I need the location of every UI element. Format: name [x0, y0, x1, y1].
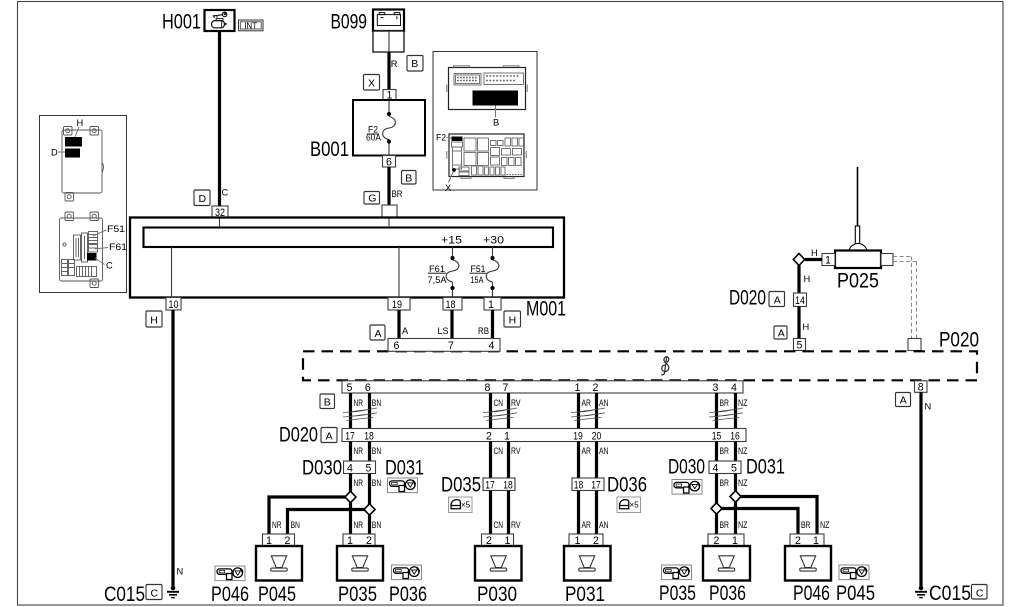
antenna P025 box: [835, 251, 881, 269]
branch wire NR to P045 pin1: [269, 497, 346, 534]
pin 6 box B001: [383, 156, 396, 168]
battery glyph: [377, 13, 400, 26]
wire NZ P020-4 to D020-16: [734, 393, 737, 429]
svg-text:M001: M001: [526, 297, 566, 321]
ground C015 right: [915, 586, 927, 598]
ground C015 left: [167, 586, 179, 598]
node: bus to pin 19: [398, 247, 400, 297]
junction diamond NR: [345, 491, 356, 502]
wire CN D020 to D035: [489, 442, 492, 479]
D031 icon (radio) left: [388, 478, 418, 493]
wire BR D030 to junction: [715, 474, 718, 505]
wire NR D030 to junction: [349, 474, 352, 493]
svg-text:AR: AR: [582, 446, 592, 456]
ref box D: [194, 190, 210, 206]
speaker P045 pin row: [263, 534, 295, 546]
speaker P030 box: [475, 546, 522, 581]
wire N P020 to ground C015 right: [919, 392, 922, 588]
junction diamond NZ: [730, 491, 741, 502]
ref box C left: [146, 585, 162, 600]
connector D035 box pins 17,18: [483, 478, 515, 491]
pin 1 box B001: [383, 90, 396, 101]
svg-text:P046: P046: [211, 582, 249, 606]
svg-text:19: 19: [573, 430, 583, 442]
ignition switch H001 icon box: [205, 10, 235, 31]
svg-text:8: 8: [485, 382, 491, 394]
svg-text:CN: CN: [494, 446, 504, 456]
D030 icon (radio) right: [672, 480, 702, 495]
fuse F61 7,5A: [428, 247, 459, 297]
svg-text:NR: NR: [272, 520, 282, 530]
svg-text:60A: 60A: [366, 133, 382, 143]
wire H pin14 to P020 pin5: [797, 307, 800, 339]
svg-text:B: B: [324, 397, 331, 409]
svg-text:C: C: [106, 261, 113, 271]
speaker P030 pin row: [482, 534, 514, 546]
svg-text:AR: AR: [582, 398, 592, 408]
svg-text:P045: P045: [258, 582, 296, 606]
svg-text:P036: P036: [709, 581, 746, 605]
svg-text:5: 5: [797, 340, 803, 352]
pin 18 box M001: [443, 298, 462, 311]
radio P020 dashed box: [303, 351, 977, 380]
P020 pin 8 box right: [915, 381, 928, 393]
svg-text:P020: P020: [939, 328, 979, 352]
G-wire entry box M001: [382, 205, 397, 218]
svg-text:CN: CN: [494, 520, 504, 530]
branch wire BN to P045 pin2: [288, 510, 365, 535]
speaker P031 cone symbol: [579, 556, 595, 571]
junction diamond BR: [711, 503, 722, 514]
svg-text:P045: P045: [836, 581, 875, 605]
svg-text:X: X: [445, 183, 451, 193]
svg-text:H: H: [803, 322, 810, 332]
svg-text:BR: BR: [720, 398, 730, 408]
svg-text:7: 7: [503, 382, 509, 394]
P020 top pin strip 6-7-4: [388, 339, 500, 352]
svg-text:F61: F61: [429, 264, 445, 274]
svg-text:BN: BN: [372, 478, 382, 488]
speaker P030 cone symbol: [490, 556, 506, 571]
wire BR P020-3 to D020-15: [715, 393, 718, 429]
svg-text:+30: +30: [483, 235, 504, 247]
D035 door x5 icon: [449, 497, 473, 513]
H001 ignition cylinder glyph: [212, 19, 228, 28]
svg-text:BR: BR: [392, 189, 403, 199]
node: G entry to bus: [388, 219, 390, 228]
svg-text:1: 1: [575, 382, 581, 394]
D036 door x5 icon: [617, 497, 641, 513]
antenna dome: [849, 244, 867, 253]
speaker P036 cone symbol: [718, 556, 734, 571]
wire NZ junction to P036: [734, 502, 737, 534]
svg-text:H: H: [811, 248, 818, 258]
svg-text:P030: P030: [477, 582, 517, 606]
svg-text:H001: H001: [162, 10, 201, 34]
svg-text:P031: P031: [565, 582, 605, 606]
speaker P031 box: [564, 546, 611, 581]
inset: X dot + leader: [452, 168, 456, 172]
connector D036 box pins 18,17: [572, 478, 604, 491]
speaker P035 cone symbol: [352, 556, 368, 571]
svg-text:NR: NR: [354, 478, 364, 488]
junction diamond BN: [364, 504, 375, 515]
svg-text:P046: P046: [793, 581, 830, 605]
junction diamond (antenna feed): [793, 254, 804, 266]
wire RV D035 to P030: [507, 491, 510, 535]
svg-text:H: H: [509, 315, 517, 327]
wire AN P020-2 to D020-20: [595, 393, 598, 429]
speaker P045 box: [256, 546, 302, 581]
svg-text:F51: F51: [471, 264, 486, 274]
ref box A (above P020 pin5): [774, 326, 787, 339]
svg-text:6: 6: [394, 340, 400, 352]
svg-text:AN: AN: [599, 446, 609, 456]
svg-text:10: 10: [169, 299, 179, 311]
battery lower box divider: [388, 31, 390, 52]
coax dashed link P025 to P020: [893, 257, 917, 339]
wire BR B001 to M001: [387, 167, 390, 205]
svg-text:NZ: NZ: [820, 520, 830, 530]
svg-text:1: 1: [825, 255, 831, 267]
wire AR P020-1 to D020-19: [577, 393, 580, 429]
svg-text:D020: D020: [279, 423, 318, 447]
ref box B lower: [402, 171, 417, 185]
speaker P036 pin row: [708, 534, 744, 546]
M001 internal bus bar: [144, 228, 554, 248]
antenna P025 mast: [857, 167, 859, 226]
svg-text:6: 6: [365, 382, 371, 394]
svg-text:3: 3: [713, 382, 719, 394]
svg-text:RV: RV: [511, 398, 521, 408]
inset: connector H (black): [65, 137, 82, 147]
svg-text:RV: RV: [511, 446, 521, 456]
P025 pin 1 box: [822, 254, 835, 266]
speaker P035 box: [337, 546, 383, 581]
svg-text:NZ: NZ: [738, 398, 748, 408]
tweeter P046 icon box left: [215, 566, 245, 581]
svg-text:AN: AN: [599, 398, 609, 408]
svg-text:4: 4: [489, 340, 495, 352]
svg-text:N: N: [925, 402, 932, 412]
svg-text:F61: F61: [109, 242, 127, 252]
svg-text:7,5A: 7,5A: [428, 275, 448, 285]
svg-text:BN: BN: [291, 520, 301, 530]
svg-text:INT: INT: [244, 20, 258, 30]
inset: connector D (black): [65, 149, 80, 158]
svg-text:BN: BN: [372, 446, 382, 456]
wire CN D035 to P030: [489, 491, 492, 535]
svg-text:A: A: [402, 326, 409, 336]
ref box C right: [972, 585, 988, 600]
connector D020 row box: [342, 429, 746, 442]
tweeter P036 icon box left: [392, 565, 422, 580]
svg-text:D030: D030: [302, 456, 342, 480]
battery B099 icon box: [373, 10, 404, 32]
svg-text:1: 1: [488, 299, 494, 311]
svg-text:C: C: [976, 587, 984, 599]
P020 bottom pin strip 5 6 8 7 1 2 3 4: [342, 381, 743, 393]
ref box A (D020 antenna): [769, 292, 785, 307]
svg-text:CN: CN: [494, 398, 504, 408]
wire AR D036 to P031: [577, 491, 580, 535]
svg-text:AR: AR: [582, 520, 592, 530]
ref box A (D020 row): [321, 428, 337, 443]
svg-text:19: 19: [392, 299, 402, 311]
svg-text:5: 5: [347, 382, 353, 394]
svg-text:1: 1: [504, 430, 510, 442]
node: pin32 to bus: [219, 219, 221, 228]
ref box B (front-left pair): [320, 394, 335, 409]
wire H junction to D020 pin14: [797, 266, 800, 294]
wire AN D036 to P031: [595, 491, 598, 535]
fuse F51 15A: [470, 247, 499, 297]
connector D030 box left pins 4,5: [344, 461, 376, 474]
speaker P046 cone symbol: [800, 556, 816, 571]
branch wire BR to P046 pin2: [722, 509, 799, 535]
D020 pin 14 box: [794, 293, 807, 307]
fuse box B001: [353, 100, 425, 156]
speaker P035 pin row: [343, 534, 375, 546]
svg-text:A: A: [326, 431, 333, 443]
svg-text:16: 16: [730, 430, 740, 442]
wire RV D020 to D035: [507, 442, 510, 479]
wire BR junction to P036: [715, 514, 718, 534]
svg-text:B: B: [411, 58, 418, 70]
speaker P046 box: [785, 546, 831, 581]
wire H P025 pin1 to junction: [805, 258, 822, 261]
wire RV P020-7 to D020-1: [507, 393, 510, 429]
svg-text:4: 4: [731, 382, 737, 394]
svg-text:5: 5: [366, 463, 372, 475]
speaker P045 cone symbol: [271, 556, 287, 571]
svg-text:18: 18: [503, 480, 513, 492]
antenna base stem: [855, 226, 859, 244]
wire LS M001 pin18 to P020: [450, 310, 453, 339]
svg-text:B001: B001: [310, 137, 349, 161]
svg-text:17: 17: [485, 480, 495, 492]
svg-text:17: 17: [345, 430, 355, 442]
twisted pair mark AR/AN: [571, 408, 605, 421]
svg-text:14: 14: [795, 295, 805, 307]
wire AR D020 to D036: [577, 442, 580, 479]
svg-text:BR: BR: [720, 446, 730, 456]
wire BN D030 to junction: [368, 474, 371, 505]
svg-text:F51: F51: [107, 224, 125, 234]
INT code box: [239, 20, 264, 31]
wire R B099 to B001 pin 1: [387, 52, 390, 90]
wire N M001 pin10 to ground C015: [171, 310, 174, 588]
svg-text:NZ: NZ: [738, 520, 748, 530]
wire NR D020 to D030: [349, 442, 352, 462]
wire BN junction to P035: [368, 515, 371, 534]
svg-text:15: 15: [712, 430, 722, 442]
inset: body computer unit top: [62, 127, 104, 202]
svg-text:4: 4: [347, 463, 353, 475]
wire H001 pin C to M001 pin 32: [218, 31, 221, 206]
svg-text:D035: D035: [441, 473, 481, 497]
svg-text:C: C: [151, 588, 159, 600]
pin 32 box M001: [212, 206, 228, 218]
pin 10 box M001: [166, 298, 181, 311]
svg-text:7: 7: [448, 340, 454, 352]
wire BN D020 to D030: [368, 442, 371, 462]
inset: X fuse F2 black rect: [452, 137, 463, 142]
svg-text:RV: RV: [511, 520, 521, 530]
svg-text:BN: BN: [372, 398, 382, 408]
svg-text:B: B: [493, 118, 499, 128]
svg-text:H: H: [77, 118, 84, 128]
fuse F2 symbol: [366, 100, 395, 156]
svg-text:NR: NR: [354, 520, 364, 530]
svg-text:LS: LS: [438, 326, 449, 336]
svg-text:2: 2: [593, 382, 599, 394]
svg-text:18: 18: [574, 480, 584, 492]
svg-text:D: D: [51, 148, 58, 158]
treble clef symbol: [661, 357, 669, 375]
coax entry box on P020: [908, 339, 921, 351]
svg-text:18: 18: [446, 299, 456, 311]
inset: unit B black connector: [473, 91, 519, 106]
tweeter P035 icon box right: [662, 565, 692, 580]
pin 19 box M001: [388, 298, 410, 311]
wire BN P020-6 to D020-18: [368, 393, 371, 429]
svg-text:BN: BN: [372, 520, 382, 530]
svg-text:BR: BR: [720, 520, 730, 530]
svg-text:X: X: [368, 77, 375, 89]
svg-text:A: A: [375, 328, 382, 340]
inset panel left (location drawing): [40, 116, 127, 293]
svg-text:F2: F2: [436, 133, 446, 143]
svg-text:+15: +15: [441, 235, 462, 247]
svg-text:A: A: [774, 295, 781, 307]
speaker P031 pin row: [569, 534, 603, 546]
svg-text:18: 18: [364, 430, 374, 442]
svg-text:G: G: [368, 193, 376, 205]
ref box H right: [504, 311, 521, 327]
svg-text:5: 5: [731, 463, 737, 475]
svg-text:2: 2: [486, 430, 492, 442]
svg-text:RB: RB: [478, 326, 489, 336]
H001 key glyph: [213, 12, 227, 18]
node: bus to pin 10: [171, 247, 173, 297]
twisted pair mark NR/BN: [343, 408, 377, 421]
svg-text:D031: D031: [746, 455, 785, 479]
P020 pin 5 box: [794, 339, 806, 351]
tweeter P045 icon box right: [839, 565, 869, 580]
ref box H left: [146, 311, 162, 327]
speaker P036 box: [703, 546, 750, 581]
wire AN D020 to D036: [595, 442, 598, 479]
twisted pair mark CN/RV: [483, 408, 517, 421]
svg-text:P035: P035: [659, 581, 696, 605]
wire NZ D020 to D030 right: [734, 442, 737, 462]
svg-text:NR: NR: [354, 398, 364, 408]
svg-text:8: 8: [918, 382, 924, 394]
svg-text:R: R: [391, 59, 398, 69]
twisted pair mark BR/NZ: [709, 408, 743, 421]
ref box X: [364, 75, 380, 91]
P025 right coax box: [881, 254, 893, 266]
svg-text:NZ: NZ: [738, 478, 748, 488]
wire CN P020-8 to D020-2: [489, 393, 492, 429]
inset: unit B drawing: [447, 66, 527, 110]
pin 1 box M001: [484, 298, 501, 311]
svg-text:H: H: [804, 274, 811, 284]
wire NR P020-5 to D020-17: [349, 393, 352, 429]
svg-text:17: 17: [591, 480, 601, 492]
svg-text:D031: D031: [385, 456, 424, 480]
body computer M001 box: [130, 218, 564, 298]
svg-text:P035: P035: [338, 582, 377, 606]
ref box A (N wire): [896, 393, 911, 407]
ref box G: [364, 192, 380, 205]
wire A M001 pin19 to P020: [397, 310, 400, 339]
svg-text:D030: D030: [668, 455, 705, 479]
wire NZ D030 to junction: [734, 474, 737, 492]
wire BR D020 to D030 right: [715, 442, 718, 462]
svg-text:H: H: [150, 315, 158, 327]
svg-text:C015: C015: [929, 581, 971, 605]
connector D030 box right pins 4,5: [709, 461, 741, 474]
svg-text:B099: B099: [331, 10, 368, 34]
svg-text:D036: D036: [607, 473, 647, 497]
svg-text:D020: D020: [729, 286, 766, 310]
svg-text:BR: BR: [720, 478, 730, 488]
svg-text:20: 20: [592, 430, 602, 442]
inset panel right (fuse box location): [433, 52, 537, 191]
svg-text:6: 6: [386, 156, 392, 168]
inset: unit X drawing: [447, 134, 526, 178]
svg-text:A: A: [778, 328, 785, 340]
svg-text:P036: P036: [389, 582, 427, 606]
svg-text:P025: P025: [837, 269, 879, 293]
svg-text:NR: NR: [354, 446, 364, 456]
svg-text:15A: 15A: [471, 275, 485, 285]
svg-text:4: 4: [713, 463, 719, 475]
wire NR junction to P035: [349, 503, 352, 534]
wire RB M001 pin1 to P020: [491, 310, 494, 339]
svg-text:A: A: [900, 395, 907, 407]
ref box A (M001 wires): [370, 325, 385, 340]
svg-text:D: D: [199, 193, 207, 205]
svg-text:B: B: [405, 172, 412, 184]
svg-text:C: C: [222, 187, 229, 197]
svg-text:AN: AN: [599, 520, 609, 530]
inset: C black square: [87, 253, 97, 261]
speaker P046 pin row: [790, 534, 824, 546]
inset label B + leader: [495, 106, 497, 118]
svg-text:BR: BR: [801, 520, 811, 530]
inset: fuse unit bottom: [60, 212, 103, 288]
ref box B upper: [407, 56, 423, 72]
svg-text:C015: C015: [104, 582, 145, 606]
svg-text:N: N: [177, 567, 184, 577]
branch wire NZ to P046 pin1: [741, 497, 818, 535]
battery B099 lower box: [373, 31, 404, 52]
